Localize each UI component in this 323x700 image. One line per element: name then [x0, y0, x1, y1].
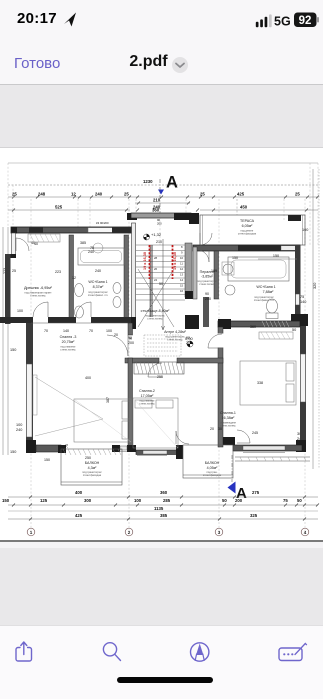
svg-text:150: 150	[44, 458, 50, 462]
stair red annotation left	[143, 252, 177, 270]
svg-text:12: 12	[71, 192, 76, 197]
wall horizontal right wing (under bath)	[218, 319, 300, 329]
svg-text:425: 425	[75, 513, 83, 518]
svg-text:285: 285	[163, 498, 171, 503]
plant circle	[93, 243, 103, 253]
wall top-left horizontal	[11, 227, 135, 234]
balcony 2 outline	[183, 445, 233, 478]
svg-text:26: 26	[154, 267, 158, 271]
svg-text:140: 140	[300, 300, 306, 304]
svg-text:100: 100	[106, 329, 112, 333]
grid bubbles	[27, 528, 309, 536]
top dimension labels	[12, 179, 300, 213]
markup icon	[279, 648, 302, 661]
svg-text:20,75м²: 20,75м²	[62, 340, 75, 344]
svg-text:325: 325	[250, 513, 258, 518]
wall right outer upper	[295, 245, 301, 314]
svg-text:19 x 16,30: 19 x 16,30	[143, 252, 147, 270]
wall stair shaft top	[131, 213, 191, 218]
svg-text:WC+Баня 1: WC+Баня 1	[88, 280, 107, 284]
svg-text:25: 25	[295, 192, 300, 197]
bottom dim ticks	[12, 496, 319, 521]
wall below terrace	[193, 245, 300, 251]
svg-text:ТЕРАСА: ТЕРАСА	[240, 219, 255, 223]
room bedroom2	[139, 389, 155, 406]
svg-text:100: 100	[17, 309, 23, 313]
PDF page with floor plan	[0, 149, 323, 541]
svg-text:стени:латекс: стени:латекс	[139, 403, 155, 406]
svg-text:140: 140	[63, 329, 69, 333]
svg-text:БАЛКОН: БАЛКОН	[85, 461, 100, 465]
svg-text:30: 30	[218, 427, 222, 431]
wall stair shaft left	[127, 213, 137, 329]
svg-text:25: 25	[12, 269, 16, 273]
svg-text:250: 250	[85, 456, 91, 460]
svg-text:75: 75	[65, 444, 69, 448]
svg-text:70: 70	[89, 329, 93, 333]
door bedroom1 balcony	[237, 430, 250, 443]
svg-text:248: 248	[38, 192, 46, 197]
wall bottom-left corner	[26, 445, 64, 451]
top dimension chain lines	[8, 185, 318, 210]
svg-text:WC+Баня 1: WC+Баня 1	[256, 285, 275, 289]
svg-text:300: 300	[84, 498, 92, 503]
svg-text:20: 20	[210, 427, 214, 431]
wall left outer upper	[5, 254, 11, 324]
wall right step corner	[291, 314, 308, 326]
svg-text:стени:фаянс. пл.: стени:фаянс. пл.	[88, 293, 109, 297]
room stairs	[141, 309, 170, 321]
svg-text:2: 2	[128, 530, 131, 535]
svg-text:4,3м²: 4,3м²	[88, 466, 97, 470]
wall bedroom3 top (dim line on wall)	[31, 322, 131, 324]
svg-text:стени:латекс: стени:латекс	[199, 283, 215, 286]
svg-text:425: 425	[237, 192, 245, 197]
svg-text:100: 100	[16, 423, 22, 427]
wall laundry left	[193, 247, 197, 299]
window left lower	[27, 364, 33, 437]
washer circles laundry	[223, 264, 233, 274]
terrace outline	[200, 215, 305, 245]
svg-text:90: 90	[205, 292, 209, 296]
svg-text:125: 125	[40, 498, 48, 503]
bottom dim line 1	[8, 497, 318, 519]
svg-text:240: 240	[95, 269, 101, 273]
wall bottom bedroom2 window	[136, 450, 181, 455]
wall bedroom2/3 divider vertical	[128, 323, 133, 335]
balcony 1 hatch	[63, 449, 121, 455]
svg-text:240: 240	[16, 428, 22, 432]
bathtub right bath	[228, 257, 289, 281]
svg-text:100: 100	[134, 498, 142, 503]
right dim labels	[292, 228, 317, 441]
svg-text:210: 210	[156, 240, 162, 244]
location arrow	[64, 13, 76, 27]
section marker A bottom	[228, 455, 248, 502]
bed bedroom2	[133, 398, 178, 448]
svg-text:1135: 1135	[154, 506, 164, 511]
gray area above page	[0, 85, 323, 148]
svg-text:25: 25	[200, 192, 205, 197]
door hall to bedroom3	[107, 335, 128, 356]
svg-text:6,05м²: 6,05м²	[242, 224, 253, 228]
room balcony 1	[82, 461, 102, 477]
svg-text:200: 200	[186, 341, 192, 345]
room bedroom1	[220, 411, 236, 428]
room balcony 2	[203, 461, 222, 477]
svg-text:Спалня-1: Спалня-1	[220, 411, 236, 415]
svg-text:стени:латекс: стени:латекс	[30, 295, 46, 298]
pen nib circled icon	[191, 643, 209, 661]
svg-text:360: 360	[152, 208, 160, 213]
dim 150 bath	[258, 258, 297, 260]
vertical extension dashed lines from top dims	[8, 163, 318, 532]
svg-text:стени:латекс: стени:латекс	[220, 425, 236, 428]
column block	[29, 227, 43, 233]
bottom toolbar	[0, 625, 323, 699]
room laundry	[197, 270, 217, 286]
svg-text:28: 28	[154, 256, 158, 260]
share icon	[16, 648, 32, 662]
left vertical dimension lines	[3, 227, 8, 455]
svg-text:24: 24	[154, 278, 158, 282]
svg-text:385: 385	[80, 241, 86, 245]
dimension frame top line 1230	[8, 162, 318, 164]
svg-text:стени:латекс: стени:латекс	[60, 349, 76, 352]
bathtub wc left	[78, 248, 124, 265]
svg-text:189: 189	[211, 269, 217, 273]
svg-text:240: 240	[88, 250, 94, 254]
svg-text:Спалня -3: Спалня -3	[60, 335, 77, 339]
wall bottom left wing	[26, 440, 136, 462]
svg-text:223: 223	[55, 270, 61, 274]
svg-text:150: 150	[273, 254, 279, 258]
search icon	[103, 643, 116, 656]
svg-text:75: 75	[283, 498, 288, 503]
svg-text:525: 525	[55, 205, 63, 210]
window left upper	[12, 233, 16, 256]
balcony 1 outline	[61, 449, 122, 485]
svg-text:75: 75	[300, 295, 304, 299]
svg-text:4: 4	[304, 530, 307, 535]
svg-text:360: 360	[250, 325, 256, 329]
wall vertical spine center-right	[203, 297, 224, 447]
wall right outer lower	[296, 326, 306, 452]
svg-text:стени:латекс: стени:латекс	[147, 318, 163, 321]
svg-text:5G: 5G	[274, 15, 291, 29]
svg-text:275: 275	[252, 490, 260, 495]
svg-text:14: 14	[180, 278, 184, 282]
door wardrobe entry top	[16, 238, 29, 251]
wall antre / bedroom2 divider	[125, 358, 223, 363]
svg-text:25: 25	[124, 192, 129, 197]
top dimension tick marks	[12, 196, 319, 212]
wall interior vertical (WC/stair)	[124, 235, 129, 319]
svg-text:150: 150	[10, 450, 16, 454]
svg-text:50: 50	[159, 282, 163, 286]
wardrobe hatch top-left	[28, 234, 60, 242]
svg-text:Антре 4,28м²: Антре 4,28м²	[164, 330, 186, 334]
bed bedroom1	[240, 361, 296, 405]
svg-text:450: 450	[240, 205, 248, 210]
svg-text:387: 387	[106, 397, 110, 403]
level marker +1,32	[144, 232, 162, 240]
bottom dim labels	[2, 490, 302, 518]
wall stair shaft right / elevator	[174, 213, 199, 329]
svg-text:8,37м²: 8,37м²	[93, 285, 104, 289]
door laundry	[197, 250, 209, 262]
room terrace	[238, 219, 257, 236]
stair step numbers	[154, 245, 184, 293]
room wardrobe	[24, 286, 53, 298]
svg-text:12: 12	[72, 276, 76, 280]
terrace top-right column	[288, 215, 301, 221]
svg-text:стени:фасадна: стени:фасадна	[238, 232, 257, 236]
wall bedroom1 bottom	[223, 437, 302, 451]
svg-text:1: 1	[30, 530, 33, 535]
svg-text:90: 90	[186, 336, 190, 340]
wall interior vertical (wardrobe/WC)	[69, 235, 74, 319]
closet bedroom1 top	[259, 332, 293, 339]
small dim labels inside plan	[12, 240, 263, 435]
balcony 3 right edge lines	[235, 457, 310, 461]
svg-text:стени:латекс: стени:латекс	[167, 339, 183, 342]
svg-text:стени:фасадна: стени:фасадна	[83, 473, 102, 477]
bed bedroom3	[74, 399, 131, 442]
svg-text:200: 200	[205, 297, 211, 301]
svg-text:240: 240	[95, 192, 103, 197]
right vertical dimension lines	[313, 169, 319, 469]
svg-text:50: 50	[297, 498, 302, 503]
svg-text:245: 245	[252, 431, 258, 435]
svg-text:400: 400	[75, 490, 83, 495]
svg-text:200: 200	[235, 498, 243, 503]
title bar	[0, 44, 323, 85]
svg-text:90: 90	[128, 336, 132, 340]
level marker 0,00	[185, 336, 194, 347]
signal bars	[256, 17, 268, 27]
svg-text:150: 150	[232, 256, 238, 260]
svg-text:стълбище-8,80м²: стълбище-8,80м²	[141, 309, 170, 313]
svg-text:40: 40	[34, 242, 38, 246]
svg-text:400: 400	[85, 376, 91, 380]
svg-text:3: 3	[218, 530, 221, 535]
svg-text:16,38м²: 16,38м²	[222, 416, 235, 420]
closet hatch bedroom2	[134, 362, 184, 374]
svg-text:10: 10	[180, 256, 184, 260]
stair red dashes	[150, 245, 173, 279]
status bar	[0, 0, 323, 44]
svg-text:210: 210	[153, 198, 161, 203]
svg-text:+1,32: +1,32	[151, 232, 162, 237]
svg-text:Спалня-2: Спалня-2	[139, 389, 155, 393]
door labels K3	[96, 218, 162, 341]
wall bottom of wc block segments	[48, 317, 136, 323]
left dim labels	[3, 268, 22, 454]
door wardrobe bottom	[33, 302, 48, 317]
svg-text:A: A	[166, 174, 178, 192]
svg-text:16: 16	[180, 289, 184, 293]
svg-text:стени:фаянс. пл.: стени:фаянс. пл.	[254, 298, 275, 302]
svg-text:20: 20	[114, 333, 118, 337]
door balcony2	[176, 431, 189, 444]
wall left step	[5, 254, 16, 258]
svg-text:Дрешник -6,95м²: Дрешник -6,95м²	[24, 286, 53, 290]
svg-text:385: 385	[160, 513, 168, 518]
svg-text:92: 92	[299, 15, 312, 27]
wall laundry right / wc divider	[214, 251, 219, 299]
svg-text:200: 200	[157, 222, 162, 226]
window cross symbol left	[33, 375, 103, 436]
svg-text:50: 50	[222, 498, 227, 503]
svg-text:К3 90/200: К3 90/200	[96, 221, 109, 225]
svg-text:4,05м²: 4,05м²	[207, 466, 218, 470]
svg-text:11: 11	[180, 262, 183, 266]
svg-text:338: 338	[257, 381, 263, 385]
stair treads	[136, 245, 185, 300]
svg-text:200: 200	[128, 341, 134, 345]
room wc bath left	[88, 280, 109, 297]
wall left outer lower	[26, 323, 33, 441]
svg-text:360: 360	[160, 490, 168, 495]
dashed opening under antre	[144, 335, 181, 356]
svg-text:БАЛКОН: БАЛКОН	[205, 461, 220, 465]
stair center divider	[149, 245, 151, 317]
svg-text:12: 12	[180, 267, 184, 271]
sink right bath	[225, 285, 235, 295]
door to bedroom1	[208, 334, 222, 348]
svg-text:17,05м²: 17,05м²	[141, 394, 154, 398]
door antre to bedroom2	[148, 363, 162, 377]
toilet right bath	[266, 299, 278, 319]
stair break diagonals	[138, 269, 174, 327]
window sills bottom	[120, 452, 285, 456]
svg-text:320: 320	[313, 283, 317, 289]
window gap top wall	[88, 228, 113, 233]
svg-text:1230: 1230	[143, 179, 153, 184]
section marker A top	[158, 174, 178, 214]
svg-text:стени:фасадна: стени:фасадна	[203, 473, 222, 477]
svg-text:19 x 16,30: 19 x 16,30	[173, 252, 177, 270]
room wc bath right	[254, 285, 276, 302]
sink wc left	[75, 284, 84, 297]
svg-text:150: 150	[10, 348, 16, 352]
svg-text:50: 50	[292, 328, 296, 332]
door wc left bottom	[76, 302, 91, 317]
shower bottom left	[75, 306, 84, 318]
svg-text:7,88м²: 7,88м²	[263, 290, 274, 294]
battery	[294, 13, 317, 28]
svg-text:9: 9	[181, 251, 183, 255]
svg-text:13: 13	[180, 273, 184, 277]
stair walk line with arrow	[162, 239, 165, 330]
svg-text:70: 70	[44, 329, 48, 333]
svg-text:8: 8	[181, 245, 183, 249]
door terrace	[200, 233, 212, 245]
svg-text:150: 150	[2, 498, 10, 503]
wall bottom antre/balcony2 corner	[176, 445, 183, 459]
svg-text:15: 15	[180, 284, 184, 288]
toilet wc left	[113, 283, 121, 294]
room antre	[164, 330, 186, 342]
svg-text:-3,85м²: -3,85м²	[201, 275, 214, 279]
wall horizontal under wardrobe	[0, 317, 33, 323]
pen nib solid tip	[196, 644, 203, 656]
room bedroom3	[60, 335, 77, 352]
